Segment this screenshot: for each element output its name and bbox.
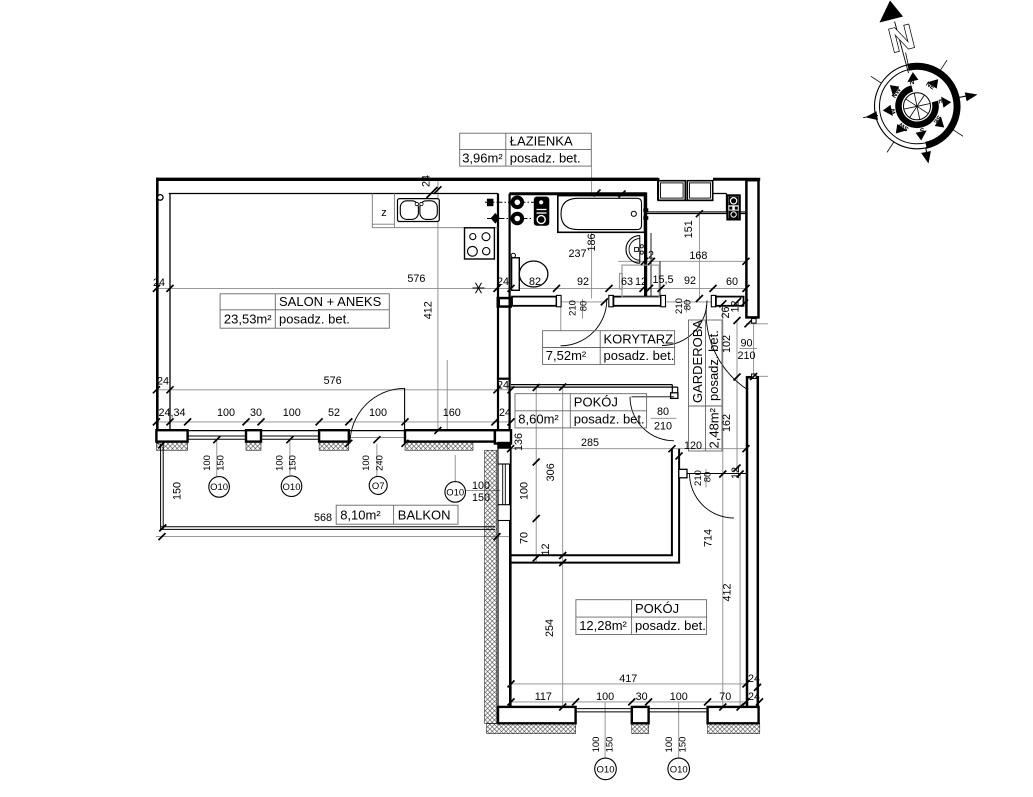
svg-text:102: 102 bbox=[721, 335, 733, 353]
svg-text:12: 12 bbox=[730, 300, 742, 312]
small circle top-left corner bbox=[158, 195, 164, 201]
svg-text:3,96m²: 3,96m² bbox=[462, 150, 503, 165]
svg-text:posadz. bet.: posadz. bet. bbox=[706, 330, 721, 401]
svg-text:ŁAZIENKA: ŁAZIENKA bbox=[510, 134, 573, 149]
svg-text:posadz. bet.: posadz. bet. bbox=[635, 618, 706, 633]
svg-text:82: 82 bbox=[529, 276, 541, 288]
sills in window gaps bbox=[576, 708, 632, 710]
salon top inner line bbox=[169, 193, 498, 195]
dim line 306/254 vertical bbox=[562, 387, 564, 707]
dim line 714 vertical bbox=[722, 304, 724, 707]
left inner wall bbox=[169, 194, 171, 431]
dim line 151 vertical bbox=[698, 214, 700, 299]
svg-text:POKÓJ: POKÓJ bbox=[635, 601, 679, 616]
svg-text:92: 92 bbox=[577, 276, 589, 288]
svg-text:O7: O7 bbox=[372, 481, 385, 492]
bar 2 bbox=[609, 295, 614, 306]
svg-text:412: 412 bbox=[722, 583, 734, 601]
hatch under salon windows bbox=[156, 442, 187, 451]
asterisk gas point bbox=[473, 283, 485, 293]
right wall of room 8.60 bbox=[671, 449, 673, 556]
door sill lines corridor bbox=[561, 301, 604, 303]
svg-text:BALKON: BALKON bbox=[398, 508, 451, 523]
svg-text:24,34: 24,34 bbox=[158, 407, 185, 419]
right wall upper block bbox=[746, 180, 758, 317]
svg-text:30: 30 bbox=[250, 407, 262, 419]
svg-text:117: 117 bbox=[535, 691, 552, 703]
svg-text:O10: O10 bbox=[597, 765, 615, 776]
svg-text:240: 240 bbox=[374, 455, 385, 471]
svg-text:100: 100 bbox=[275, 455, 286, 471]
dim line 417 bbox=[511, 683, 760, 685]
dim line 136/100/70 vertical bbox=[535, 386, 537, 563]
bathtub bbox=[558, 196, 649, 233]
svg-text:168: 168 bbox=[689, 250, 707, 262]
svg-text:714: 714 bbox=[703, 529, 715, 547]
svg-text:412: 412 bbox=[422, 301, 434, 319]
door gap line right wall bbox=[753, 321, 755, 377]
basin niche grey outline bbox=[620, 265, 660, 297]
210/80 dividers bbox=[582, 299, 584, 319]
svg-text:576: 576 bbox=[407, 273, 425, 285]
ext lines right door bbox=[746, 323, 768, 325]
svg-text:2,48m²: 2,48m² bbox=[706, 407, 721, 448]
svg-text:576: 576 bbox=[324, 375, 342, 387]
dim line salon window row bbox=[156, 421, 511, 423]
left outer wall bbox=[156, 178, 159, 444]
svg-text:237: 237 bbox=[568, 248, 586, 260]
svg-text:O10: O10 bbox=[283, 482, 301, 493]
svg-text:z: z bbox=[381, 207, 387, 219]
lazienka leader bbox=[591, 166, 593, 298]
door post marks right wall bbox=[752, 319, 757, 324]
dim line 412 salon vertical bbox=[437, 181, 439, 431]
dim line 576 upper salon bbox=[156, 287, 746, 289]
svg-text:210: 210 bbox=[737, 350, 755, 362]
svg-text:SALON + ANEKS: SALON + ANEKS bbox=[279, 294, 382, 309]
svg-text:posadz. bet.: posadz. bet. bbox=[574, 412, 645, 427]
wall 151 double thin bbox=[646, 211, 746, 213]
bottom circle leaders bbox=[604, 702, 606, 758]
80/210 fraction line door 8.60 bbox=[651, 417, 677, 419]
svg-text:24: 24 bbox=[157, 375, 169, 387]
dim line 412 right vertical bbox=[739, 474, 741, 707]
svg-text:24: 24 bbox=[499, 407, 511, 419]
svg-text:100: 100 bbox=[369, 407, 387, 419]
svg-text:70: 70 bbox=[719, 691, 731, 703]
door post 12.28 bbox=[679, 469, 687, 478]
stove bbox=[465, 228, 495, 259]
svg-text:80: 80 bbox=[657, 406, 669, 418]
210/80 divider door 12.28 bbox=[705, 469, 707, 488]
svg-text:100: 100 bbox=[283, 407, 301, 419]
svg-text:568: 568 bbox=[314, 512, 332, 524]
balcony window leaders bbox=[216, 440, 218, 477]
corridor-left wall column bbox=[497, 308, 499, 431]
svg-text:100: 100 bbox=[202, 455, 213, 471]
svg-text:100: 100 bbox=[596, 691, 614, 703]
svg-text:KORYTARZ: KORYTARZ bbox=[604, 332, 674, 347]
svg-text:150: 150 bbox=[288, 455, 299, 471]
svg-text:100: 100 bbox=[664, 737, 675, 753]
svg-text:60: 60 bbox=[726, 276, 738, 288]
svg-text:posadz. bet.: posadz. bet. bbox=[279, 311, 350, 326]
svg-text:80: 80 bbox=[579, 301, 590, 312]
svg-text:posadz. bet.: posadz. bet. bbox=[604, 348, 675, 363]
svg-text:7,52m²: 7,52m² bbox=[546, 348, 587, 363]
bar 1 bbox=[512, 297, 557, 306]
window recess step bbox=[657, 178, 659, 201]
svg-text:24: 24 bbox=[748, 673, 760, 685]
svg-text:8,10m²: 8,10m² bbox=[340, 508, 381, 523]
bathroom top wall bbox=[510, 192, 646, 195]
svg-text:417: 417 bbox=[619, 673, 637, 685]
svg-text:24: 24 bbox=[748, 691, 760, 703]
svg-text:O10: O10 bbox=[446, 488, 464, 499]
svg-text:posadz. bet.: posadz. bet. bbox=[510, 150, 581, 165]
svg-text:162: 162 bbox=[721, 414, 733, 432]
svg-text:8,60m²: 8,60m² bbox=[518, 412, 559, 427]
svg-text:100: 100 bbox=[361, 455, 372, 471]
svg-text:136: 136 bbox=[513, 433, 525, 451]
svg-text:186: 186 bbox=[586, 233, 598, 251]
svg-text:150: 150 bbox=[678, 737, 689, 753]
svg-text:24: 24 bbox=[497, 379, 509, 391]
svg-text:150: 150 bbox=[604, 737, 615, 753]
svg-text:GARDEROBA: GARDEROBA bbox=[690, 320, 705, 403]
svg-text:92: 92 bbox=[684, 275, 696, 287]
north arrow bbox=[880, 1, 904, 23]
svg-text:30: 30 bbox=[636, 691, 648, 703]
svg-text:150: 150 bbox=[172, 482, 184, 500]
bottom partition bbox=[511, 554, 673, 556]
svg-text:80: 80 bbox=[683, 300, 694, 311]
long arrows E S W bbox=[959, 96, 967, 98]
svg-text:12: 12 bbox=[540, 543, 552, 555]
svg-text:63: 63 bbox=[621, 276, 633, 288]
svg-text:O10: O10 bbox=[210, 482, 228, 493]
svg-text:POKÓJ: POKÓJ bbox=[574, 395, 618, 410]
svg-text:120: 120 bbox=[684, 440, 702, 452]
svg-text:23,53m²: 23,53m² bbox=[224, 311, 272, 326]
svg-text:151: 151 bbox=[683, 220, 695, 238]
svg-text:210: 210 bbox=[654, 420, 672, 432]
svg-text:100: 100 bbox=[591, 737, 602, 753]
balcony door sill bbox=[349, 437, 405, 439]
bathroom right wall bbox=[644, 192, 647, 299]
top outer wall bbox=[156, 178, 658, 181]
svg-text:12,28m²: 12,28m² bbox=[579, 618, 627, 633]
dim line 285/120 bbox=[511, 448, 746, 450]
svg-text:80: 80 bbox=[703, 472, 714, 483]
side window frames bbox=[498, 448, 510, 464]
dim line 568 balcony bbox=[156, 536, 510, 538]
O10 side window leader bbox=[464, 489, 500, 491]
toilet bbox=[511, 253, 548, 290]
svg-text:15,5: 15,5 bbox=[652, 274, 673, 286]
kitchen/bath wall bbox=[497, 194, 499, 298]
right wall lower block bbox=[747, 377, 758, 723]
dim line 576 lower salon bbox=[156, 389, 511, 391]
svg-text:150: 150 bbox=[472, 492, 490, 504]
dim line 168 bbox=[618, 260, 746, 262]
svg-text:150: 150 bbox=[215, 455, 226, 471]
svg-text:90: 90 bbox=[740, 337, 752, 349]
sink bbox=[398, 199, 440, 222]
svg-text:100: 100 bbox=[670, 691, 688, 703]
svg-text:24: 24 bbox=[421, 175, 433, 187]
svg-text:306: 306 bbox=[545, 463, 557, 481]
hatch vertical strip left of lower rooms bbox=[485, 450, 497, 723]
svg-text:100: 100 bbox=[217, 407, 235, 419]
garderoba bar bbox=[711, 295, 716, 306]
svg-text:285: 285 bbox=[581, 437, 599, 449]
sills bbox=[188, 435, 246, 437]
svg-text:O10: O10 bbox=[670, 765, 688, 776]
svg-text:210: 210 bbox=[567, 300, 578, 316]
svg-text:160: 160 bbox=[443, 407, 461, 419]
svg-text:100: 100 bbox=[519, 482, 531, 500]
90/210 fraction line bbox=[740, 348, 758, 350]
svg-text:254: 254 bbox=[544, 619, 556, 637]
svg-text:52: 52 bbox=[328, 407, 340, 419]
svg-text:100: 100 bbox=[472, 480, 490, 492]
dim line 102/162 vertical bbox=[736, 321, 738, 475]
svg-text:70: 70 bbox=[519, 532, 531, 544]
dim line bottom window row bbox=[511, 701, 760, 703]
washbasin bbox=[626, 236, 643, 264]
hatch bottom wall bbox=[487, 724, 576, 734]
